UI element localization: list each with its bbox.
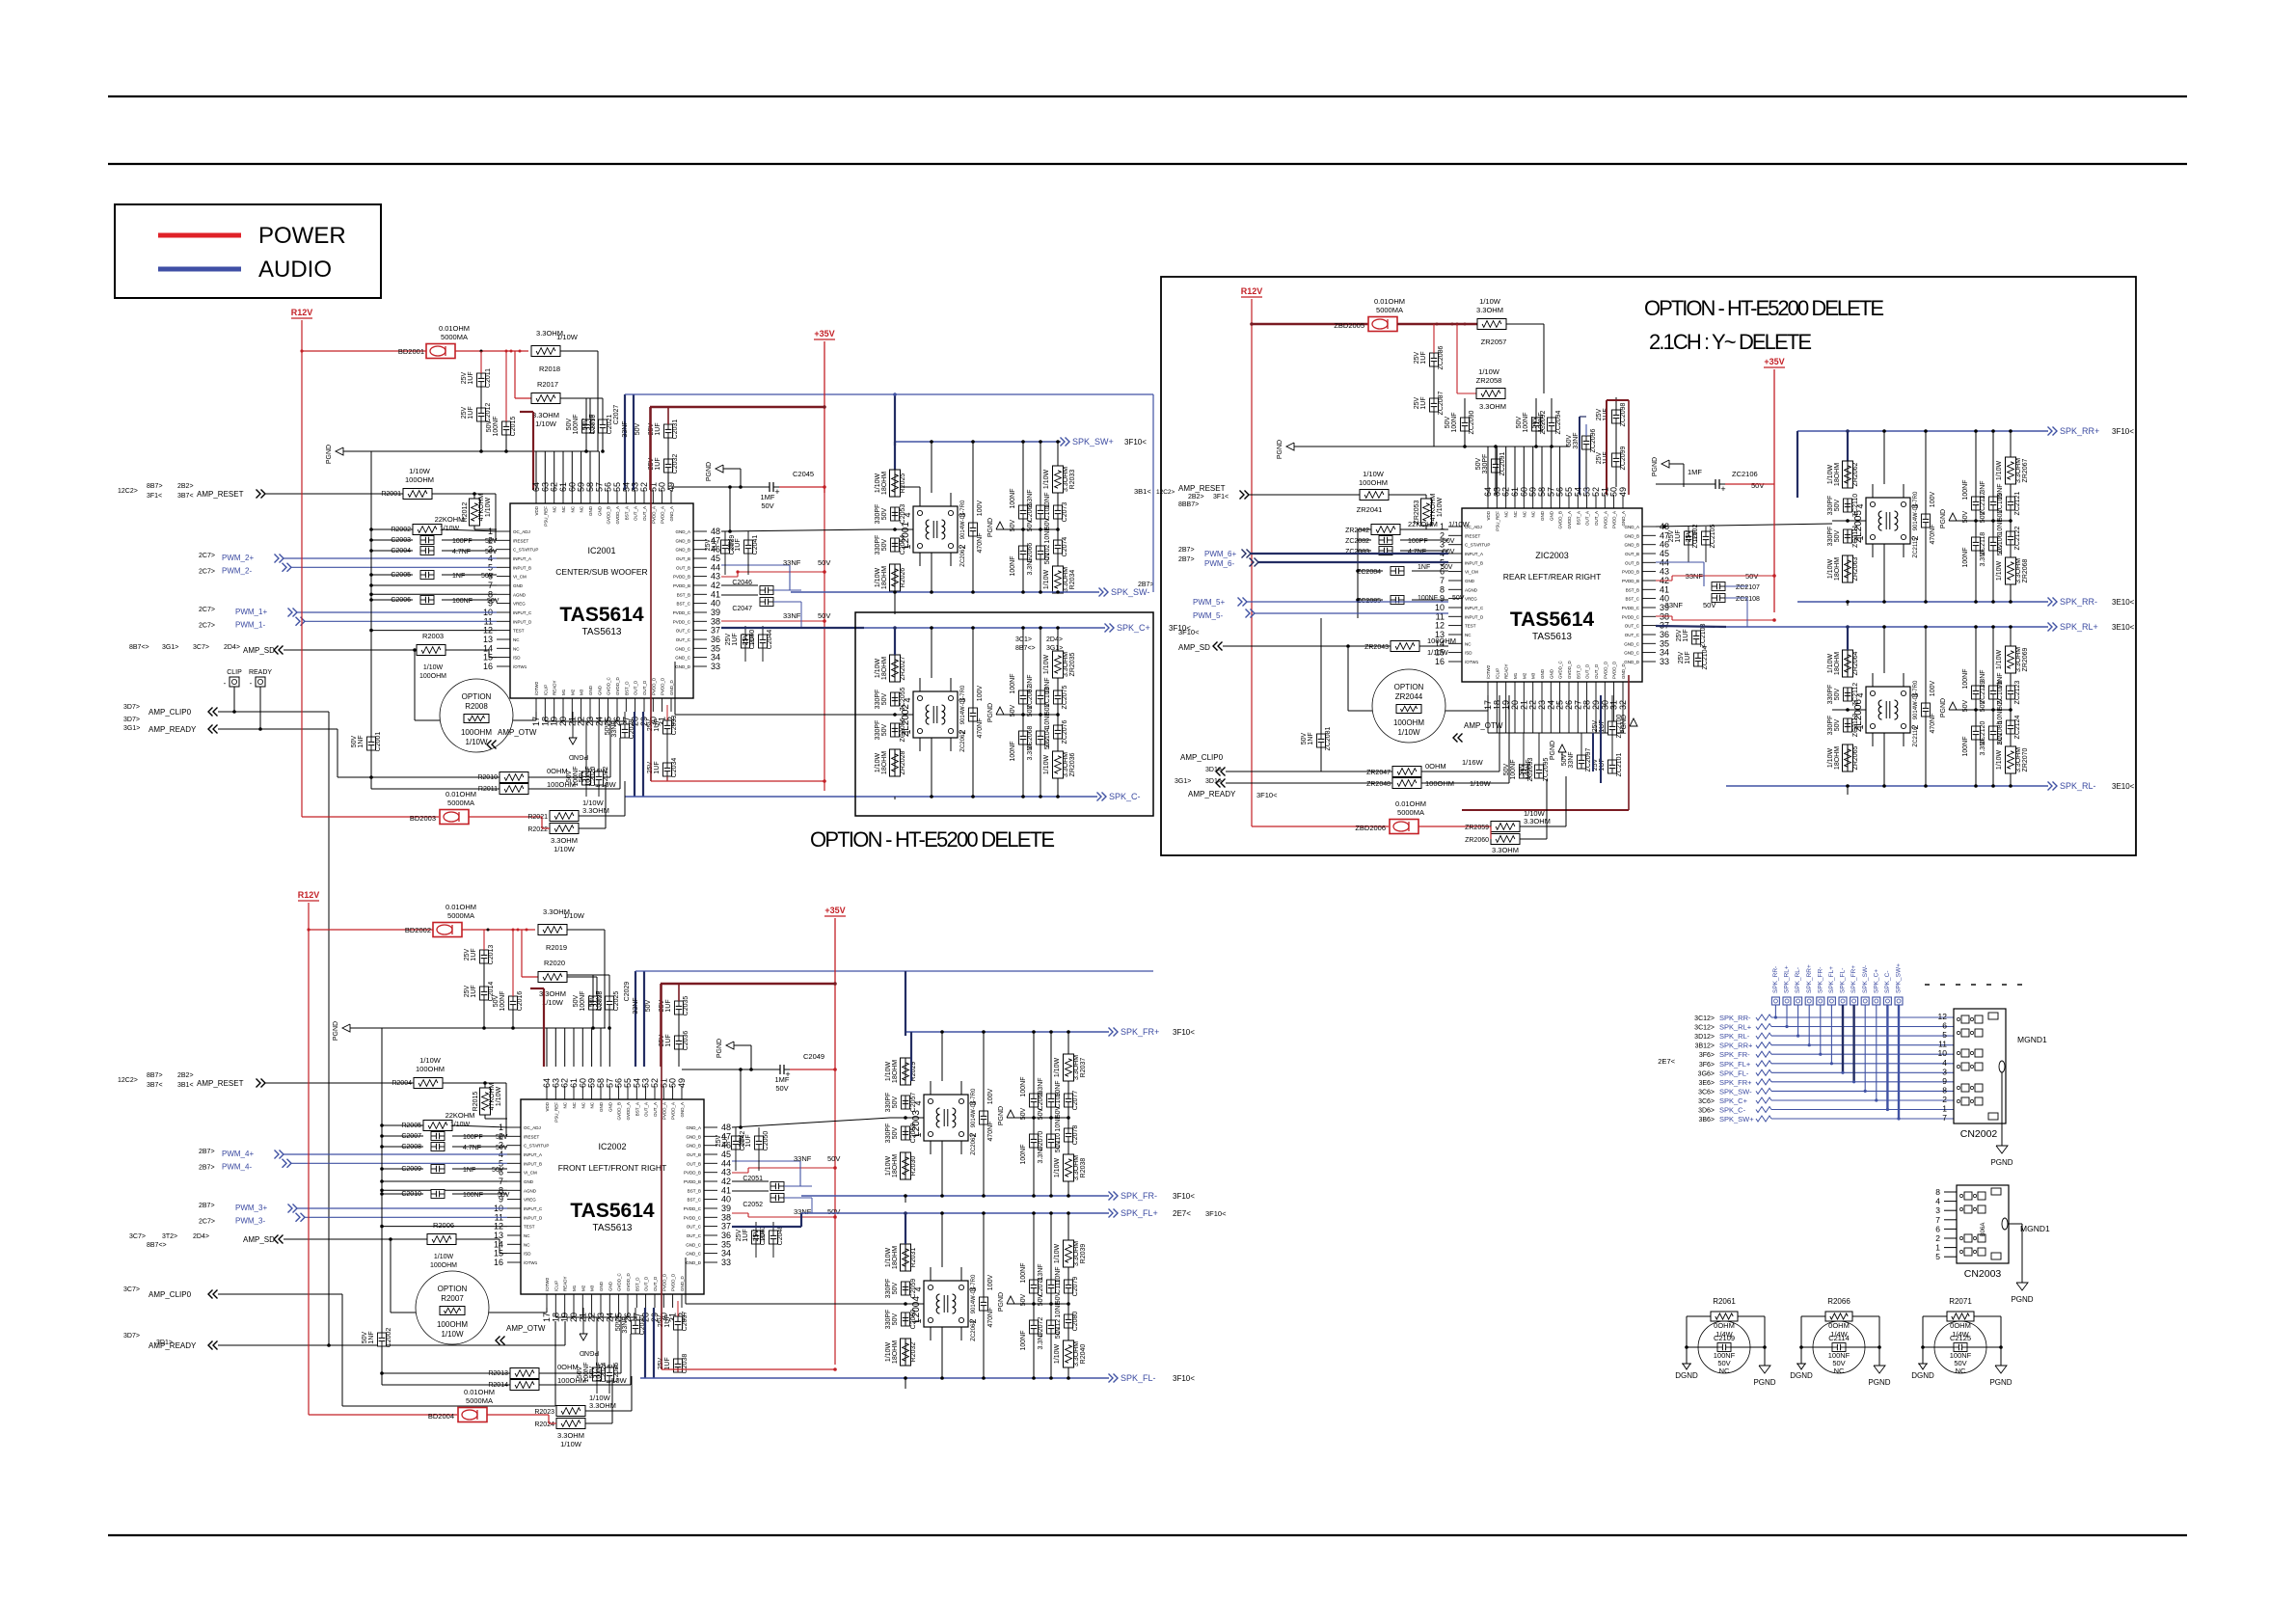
svg-text:3.3OHM: 3.3OHM [1063, 752, 1069, 777]
legend POWER wire sample red [158, 233, 241, 238]
svg-text:1/10W: 1/10W [1054, 1343, 1061, 1364]
svg-text:PWM_2-: PWM_2- [222, 566, 252, 575]
wire red PVDD_B jog [721, 576, 738, 578]
svg-text:R2034: R2034 [1069, 570, 1076, 590]
svg-text:/SD: /SD [1465, 651, 1472, 656]
capacitor ZC2097 33NF 50V [1578, 755, 1586, 769]
wire OUT_C navy block3 [1656, 626, 1726, 627]
svg-text:10NF: 10NF [1044, 677, 1051, 693]
svg-text:GND_B: GND_B [675, 548, 690, 553]
wire top pin bus block2 [604, 930, 606, 1028]
svg-text:470NF: 470NF [987, 1307, 994, 1327]
svg-text:PVDD_B: PVDD_B [673, 575, 690, 580]
resistor R2015 47KOHM 1/10W vertical [480, 1088, 491, 1115]
resistor ZR2067 3.3OHM [2006, 457, 2016, 484]
resistor R2001 100OHM 1/10W [403, 489, 432, 500]
svg-text:/SD: /SD [524, 1252, 531, 1257]
svg-text:GND: GND [1549, 510, 1553, 521]
svg-text:PVDD_D: PVDD_D [671, 1273, 676, 1291]
svg-text:R2039: R2039 [1080, 1244, 1087, 1264]
svg-text:C2078: C2078 [1072, 1125, 1079, 1146]
svg-text:AMP_SD: AMP_SD [243, 1235, 275, 1244]
svg-text:PVDD_B: PVDD_B [684, 1179, 701, 1184]
wire SPK_C- line [864, 796, 1097, 798]
resistor ZR2042 22KOHM cluster [1371, 525, 1400, 535]
svg-text:50V: 50V [1055, 1326, 1062, 1339]
svg-text:3B12>: 3B12> [1695, 1043, 1715, 1050]
svg-text:NC: NC [1522, 510, 1526, 517]
svg-text:3.3OHM: 3.3OHM [1492, 846, 1519, 854]
svg-text:VI_CM: VI_CM [1465, 570, 1478, 575]
svg-text:1UF: 1UF [1675, 529, 1682, 542]
svg-text:R2017: R2017 [537, 380, 558, 389]
svg-text:4: 4 [1942, 1058, 1947, 1068]
svg-text:2D4>: 2D4> [224, 644, 240, 651]
pgnd below IC2001 [572, 712, 574, 738]
capacitor C2109 100NF 50V NC in circle [1698, 1321, 1750, 1373]
wire +35V down [824, 341, 825, 493]
svg-text:100OHM: 100OHM [1393, 718, 1424, 727]
resistor R2038 3.3OHM [1064, 1154, 1074, 1181]
svg-text:C2114: C2114 [1828, 1334, 1850, 1342]
wire bottom pin drops IC2001 [544, 712, 546, 721]
svg-text:R2015: R2015 [473, 1092, 479, 1112]
wire c1nf c100nf [382, 1168, 423, 1170]
svg-text:GND: GND [599, 1281, 604, 1291]
svg-text:+35V: +35V [814, 329, 834, 338]
wire F2 mid gnd line [674, 662, 676, 715]
svg-text:330PF: 330PF [1827, 685, 1834, 705]
resistor R2006 100OHM [427, 1234, 456, 1245]
capacitor C2002 1NF 50V [378, 1333, 387, 1346]
svg-text:OUT_D: OUT_D [642, 680, 647, 695]
svg-text:ZC2108: ZC2108 [1736, 596, 1760, 603]
capacitor C2015 100NF 50V [502, 421, 511, 435]
capacitor C2060 330PF [902, 1313, 910, 1326]
svg-text:GVDD_C: GVDD_C [607, 676, 611, 695]
svg-text:OUT_C: OUT_C [676, 637, 691, 642]
svg-text:1UF: 1UF [471, 985, 477, 997]
svg-text:R2021: R2021 [527, 814, 548, 821]
inductor-transformer L2003 output filter [924, 1095, 968, 1141]
capacitor C2065 100NF [1019, 505, 1028, 519]
wire GND_A to filter block2 [732, 1118, 890, 1127]
capacitor C2050 1UF 25V [755, 1136, 764, 1150]
svg-text:5000MA: 5000MA [1397, 808, 1424, 817]
svg-text:1NF: 1NF [1418, 564, 1430, 571]
svg-text:C2031: C2031 [672, 420, 679, 440]
svg-text:SPK_FL-: SPK_FL- [1840, 968, 1847, 993]
node SPK_C- speaker output [1097, 793, 1102, 801]
resistor R2004 100OHM 1/10W [414, 1078, 443, 1089]
svg-text:C2058: C2058 [910, 1123, 917, 1144]
svg-text:330PF: 330PF [1827, 716, 1834, 736]
node SPK_RR- speaker output [2048, 598, 2053, 607]
svg-text:ZR2069: ZR2069 [2022, 647, 2029, 671]
wire maroon PVDD feed top [650, 406, 824, 408]
svg-text:PWM_5+: PWM_5+ [1193, 598, 1225, 607]
svg-text:ZBD2005: ZBD2005 [1334, 321, 1364, 330]
svg-text:ZC2099: ZC2099 [1620, 446, 1627, 470]
svg-text:BST_D: BST_D [624, 681, 629, 695]
svg-text:1/10W: 1/10W [1043, 469, 1050, 489]
ground DGND R2061 [1682, 1363, 1691, 1365]
svg-text:OUT_A: OUT_A [634, 506, 638, 521]
capacitor C2066 100NF [1019, 546, 1028, 559]
svg-text:33: 33 [711, 662, 720, 671]
svg-text:CN2003: CN2003 [1964, 1268, 2002, 1280]
svg-text:25V: 25V [1676, 629, 1683, 641]
svg-text:C_STARTUP: C_STARTUP [513, 548, 538, 553]
svg-text:3F10<: 3F10< [1178, 628, 1200, 636]
svg-text:1UF: 1UF [1420, 351, 1427, 364]
svg-text:100NF: 100NF [1526, 759, 1532, 779]
capacitor right caps ZC2102 1UF 25V [1685, 531, 1693, 545]
svg-text:33NF: 33NF [1568, 751, 1575, 768]
svg-text:PWM_4+: PWM_4+ [222, 1150, 254, 1158]
capacitor ZC2117 100NF [1972, 497, 1981, 510]
svg-text:OUT_D: OUT_D [653, 1276, 658, 1291]
svg-text:8: 8 [1942, 1085, 1947, 1095]
capacitor ZC2056 330PF [891, 723, 900, 737]
svg-text:AGND: AGND [1465, 587, 1478, 592]
resistor R2011 100OHM 1/10W [500, 784, 528, 795]
svg-text:33NF: 33NF [622, 420, 629, 437]
svg-text:NC: NC [1513, 510, 1518, 517]
svg-text:50V: 50V [1044, 737, 1051, 749]
wire left column [905, 1058, 906, 1085]
wire left column [1847, 650, 1849, 677]
svg-text:C2044: C2044 [767, 630, 773, 650]
wire top pin bus block3 [1487, 447, 1489, 495]
svg-text:TAS5614: TAS5614 [559, 604, 643, 626]
svg-text:C2009: C2009 [401, 1166, 421, 1173]
capacitor C2033 1UF 25V [663, 720, 672, 734]
svg-text:C2011: C2011 [485, 368, 492, 388]
svg-text:PVDD_C: PVDD_C [684, 1206, 702, 1211]
wire F3 tops [910, 1032, 912, 1081]
svg-text:M3: M3 [580, 689, 584, 695]
wire maroon feed block2 [661, 983, 835, 985]
svg-text:-: - [250, 679, 253, 688]
capacitor C2077 10NF [1065, 1094, 1073, 1107]
capacitor C2011 1UF 25V [477, 373, 486, 387]
svg-text:3.3OHM: 3.3OHM [1476, 306, 1503, 314]
wire F2 tops [894, 628, 896, 655]
wire right cluster verticals [1022, 678, 1024, 690]
wire transformer pins [930, 1267, 932, 1281]
svg-text:VDD: VDD [545, 1101, 550, 1111]
svg-text:1UF: 1UF [1685, 651, 1691, 663]
svg-text:8B7>: 8B7> [147, 1072, 163, 1079]
svg-text:4.7NF: 4.7NF [452, 549, 471, 555]
svg-text:25V: 25V [1668, 529, 1675, 542]
svg-text:3F1<: 3F1< [1213, 494, 1229, 501]
wire maroon drop to pins block3 [1606, 400, 1607, 495]
svg-text:100OHM: 100OHM [416, 1065, 445, 1073]
svg-text:2.1CH : Y~ DELETE: 2.1CH : Y~ DELETE [1649, 330, 1812, 354]
svg-text:8B7<>: 8B7<> [147, 1242, 167, 1249]
capacitor C2029 33NF navy stubs block2 [635, 971, 636, 1067]
ferrite bead BD2004 0.01OHM 5000MA [458, 1408, 487, 1422]
svg-text:25V: 25V [736, 1229, 743, 1241]
ground PGND R2061 [1759, 1366, 1770, 1373]
wire navy bottom bus block2 [644, 1308, 646, 1378]
svg-text:SPK_RL-: SPK_RL- [1795, 967, 1801, 993]
wire F5 bottoms [1847, 602, 1849, 606]
svg-text:18OHM: 18OHM [881, 657, 888, 680]
svg-text:3B6>: 3B6> [1698, 1117, 1715, 1123]
svg-text:100V: 100V [987, 1275, 994, 1291]
svg-text:IC2001: IC2001 [587, 546, 615, 555]
svg-text:50V: 50V [573, 994, 580, 1007]
capacitor ZC2081 1NF 50V [1317, 734, 1326, 747]
svg-text:100NF: 100NF [1020, 1330, 1027, 1350]
svg-text:SPK_RR+: SPK_RR+ [1719, 1042, 1753, 1050]
capacitor ZC2068 100NF [1019, 731, 1028, 744]
capacitor ZC106 3.3NF [1989, 537, 1998, 551]
svg-text:DGND: DGND [1911, 1371, 1934, 1380]
capacitor C2021 100NF 50V [599, 420, 608, 433]
wire navy bottom audio bus [634, 712, 635, 797]
svg-text:2B2>: 2B2> [177, 1072, 194, 1079]
svg-text:50V: 50V [1751, 481, 1764, 490]
svg-text:OUT_B: OUT_B [676, 565, 690, 570]
wire gnd pins to bus [382, 1180, 507, 1182]
svg-text:1/10W: 1/10W [1363, 470, 1385, 478]
svg-text:18OHM: 18OHM [1834, 557, 1841, 581]
svg-text:18OHM: 18OHM [1834, 746, 1841, 770]
svg-text:50V: 50V [582, 418, 589, 430]
svg-text:C2052: C2052 [743, 1202, 763, 1208]
svg-text:8B7<>: 8B7<> [129, 644, 149, 651]
svg-text:100V: 100V [1930, 492, 1936, 508]
svg-text:PSU_REF: PSU_REF [543, 506, 548, 527]
capacitor C2004 4.7NF 50V [420, 547, 434, 555]
svg-text:2D4>: 2D4> [1046, 636, 1063, 643]
svg-text:R2006: R2006 [433, 1221, 454, 1230]
svg-text:BST_C: BST_C [1625, 597, 1639, 602]
svg-text:OPTION: OPTION [462, 692, 492, 701]
svg-text:C2074: C2074 [1062, 537, 1068, 557]
svg-text:GND: GND [597, 685, 602, 695]
svg-text:16: 16 [483, 662, 493, 671]
svg-text:33NF: 33NF [633, 997, 639, 1014]
capacitor C2058 330PF [902, 1126, 910, 1140]
svg-text:100PF: 100PF [452, 538, 473, 545]
svg-text:GVDD_B: GVDD_B [607, 506, 611, 525]
svg-text:R2004: R2004 [392, 1080, 412, 1087]
svg-text:PGND: PGND [1652, 457, 1659, 476]
svg-text:SPK_C+: SPK_C+ [1873, 969, 1879, 993]
option delete big box [1161, 277, 2136, 855]
svg-text:SPK_SW-: SPK_SW- [1719, 1087, 1752, 1096]
resistor R2021 3.3OHM [550, 811, 579, 822]
svg-text:R2023: R2023 [534, 1409, 554, 1416]
svg-text:0.01OHM: 0.01OHM [464, 1388, 495, 1396]
svg-text:18OHM: 18OHM [892, 1340, 899, 1364]
svg-text:1/10W: 1/10W [1827, 653, 1834, 673]
capacitor ZC2082 100PF [1379, 536, 1392, 545]
svg-text:100PF: 100PF [1408, 538, 1428, 545]
capacitor ZC2112 330PF [1844, 688, 1852, 701]
resistor R2003 100OHM [417, 645, 446, 656]
capacitor C2039 1UF 25V [721, 540, 730, 554]
svg-text:50V: 50V [1010, 704, 1016, 717]
svg-text:ZR2044: ZR2044 [1395, 692, 1423, 701]
svg-text:VI_CM: VI_CM [524, 1171, 537, 1176]
svg-text:0.01OHM: 0.01OHM [446, 790, 476, 798]
svg-text:ZR2027: ZR2027 [900, 656, 906, 680]
svg-text:AMP_RESET: AMP_RESET [197, 490, 244, 499]
svg-text:OUT_C: OUT_C [687, 1225, 702, 1230]
svg-text:9014W-01-7R0: 9014W-01-7R0 [971, 1088, 977, 1127]
wire red pin feeds block3 [1656, 580, 1672, 582]
svg-text:ZC2106: ZC2106 [1732, 470, 1758, 478]
svg-text:DGND: DGND [1675, 1371, 1698, 1380]
svg-text:ZR2063: ZR2063 [1852, 556, 1859, 581]
svg-text:1/10W: 1/10W [409, 467, 431, 475]
svg-text:ZC2101: ZC2101 [1616, 752, 1623, 776]
pgnd flag filter [1949, 702, 1957, 710]
node SPK_FR- speaker output [1109, 1192, 1114, 1201]
svg-text:+35V: +35V [1764, 357, 1784, 366]
capacitor C2042 1UF 25V [732, 1136, 741, 1150]
svg-text:GND_A: GND_A [680, 1102, 685, 1118]
svg-text:INPUT_C: INPUT_C [513, 610, 532, 615]
wire after BD2004 [487, 1414, 549, 1416]
svg-text:SPK_RR-: SPK_RR- [2060, 597, 2097, 607]
capacitor ZC2116 470NF 100V [1922, 703, 1931, 717]
svg-text:R2019: R2019 [546, 943, 567, 952]
svg-text:50V: 50V [1441, 564, 1453, 571]
wire pgnd tie [1023, 714, 1058, 716]
capacitor C2047 33NF 50V [760, 598, 773, 607]
capacitor ZC104 3.3NF [1037, 731, 1045, 744]
inductor-transformer L2004 output filter [924, 1281, 968, 1327]
svg-text:ZC2075: ZC2075 [1062, 685, 1068, 709]
svg-text:1/16W: 1/16W [1462, 758, 1484, 767]
svg-text:OPTION - HT-E5200 DELETE: OPTION - HT-E5200 DELETE [810, 827, 1055, 852]
svg-text:1/10W: 1/10W [875, 752, 881, 772]
svg-text:C2006: C2006 [391, 597, 411, 604]
svg-text:C2037: C2037 [682, 1312, 689, 1332]
option delete box around F2 [855, 612, 1153, 816]
svg-text:R2038: R2038 [1080, 1158, 1087, 1178]
capacitor C2051 33NF 50V [770, 1182, 784, 1191]
svg-text:100NF: 100NF [1010, 488, 1016, 508]
svg-text:GVDD_A: GVDD_A [615, 506, 620, 525]
wire red PVDD_B jog block2 [732, 1172, 748, 1174]
svg-text:100NF: 100NF [573, 414, 580, 434]
svg-text:0.01OHM: 0.01OHM [439, 324, 470, 333]
svg-text:READY: READY [1504, 663, 1509, 679]
svg-text:3.3OHM: 3.3OHM [532, 411, 559, 420]
svg-text:M2: M2 [581, 1285, 585, 1291]
svg-text:25V: 25V [464, 948, 471, 961]
wire SPK_FL+ line [801, 1212, 1109, 1214]
svg-text:ZC2113: ZC2113 [1852, 714, 1859, 737]
svg-text:SPK_FL+: SPK_FL+ [1828, 966, 1835, 993]
svg-text:BD2003: BD2003 [410, 814, 436, 823]
svg-text:M2: M2 [570, 689, 575, 695]
svg-text:PVDD_D: PVDD_D [662, 1273, 666, 1291]
svg-text:ZC2087: ZC2087 [1438, 391, 1445, 415]
resistor R2026 18OHM [890, 564, 901, 591]
wire +35V down block2 [834, 918, 836, 1069]
svg-text:49: 49 [666, 482, 676, 492]
ferrite bead ZBD2005 0.01OHM 5000MA [1368, 317, 1397, 332]
resistor R2039 3.3OHM [1064, 1240, 1074, 1267]
svg-text:ZC2084: ZC2084 [1357, 569, 1381, 576]
svg-text:1/10W: 1/10W [542, 998, 564, 1007]
svg-text:3D7>: 3D7> [123, 1333, 140, 1340]
svg-text:AMP_READY: AMP_READY [149, 1341, 197, 1350]
svg-text:5000MA: 5000MA [447, 911, 474, 920]
svg-text:6: 6 [1935, 1224, 1940, 1233]
svg-text:C2003: C2003 [391, 537, 411, 544]
svg-text:1/10W: 1/10W [434, 1254, 454, 1260]
svg-text:50V: 50V [1703, 601, 1715, 609]
capacitor C2012 1UF 25V [477, 408, 486, 421]
inductor-transformer ZL2002 output filter [913, 691, 958, 738]
svg-text:2B7>: 2B7> [1178, 556, 1195, 563]
svg-text:C2057: C2057 [910, 1093, 917, 1113]
svg-text:18OHM: 18OHM [1834, 463, 1841, 486]
resistor R2008 OPTION 100OHM 1/10W in circle [440, 679, 513, 752]
svg-text:100NF: 100NF [500, 990, 506, 1011]
svg-text:5000MA: 5000MA [447, 798, 474, 807]
svg-text:AMP_RESET: AMP_RESET [197, 1079, 244, 1088]
svg-text:SPK_FR-: SPK_FR- [1719, 1050, 1750, 1059]
wire bottom pin drops block3 [1487, 695, 1489, 733]
wire top pin bus [597, 351, 599, 451]
wire pgnd tie [1023, 528, 1058, 530]
wire option resistor ZR2044 taps [1348, 710, 1372, 712]
wire pad taps [1774, 1005, 1776, 1017]
svg-text:GND_B: GND_B [686, 1144, 701, 1149]
svg-text:GND_A: GND_A [686, 1125, 701, 1130]
capacitor ZC2105 1UF 25V [1702, 531, 1711, 545]
svg-text:PVDD_D: PVDD_D [651, 677, 656, 695]
capacitor ZC2106 1MF 50V polarized [1710, 483, 1715, 485]
svg-text:NC: NC [1465, 633, 1472, 637]
svg-text:R12V: R12V [298, 890, 320, 900]
wire pgnd tie [1034, 1117, 1068, 1119]
svg-text:1UF: 1UF [732, 633, 739, 645]
svg-text:1/10W: 1/10W [1478, 367, 1500, 376]
svg-text:3.3OHM: 3.3OHM [2015, 747, 2022, 772]
svg-text:1UF: 1UF [712, 538, 718, 551]
svg-text:9014W-01-7R0: 9014W-01-7R0 [960, 500, 966, 539]
svg-text:25V: 25V [705, 538, 712, 551]
svg-text:INPUT_D: INPUT_D [1465, 614, 1484, 619]
svg-text:2B2>: 2B2> [1188, 494, 1204, 501]
capacitor ZC2120 100NF [1972, 726, 1981, 740]
svg-text:50V: 50V [1834, 499, 1841, 511]
svg-text:50V: 50V [492, 1167, 504, 1174]
svg-text:470NF: 470NF [1930, 524, 1936, 544]
svg-text:PGND: PGND [987, 703, 994, 722]
svg-text:C2001: C2001 [375, 732, 382, 752]
svg-text:R2033: R2033 [1069, 470, 1076, 490]
svg-text:VREG: VREG [513, 602, 526, 607]
svg-text:12C2>: 12C2> [118, 488, 138, 495]
svg-text:3F10<: 3F10< [1173, 1028, 1195, 1037]
capacitor ZC2100 1UF 25V [1608, 721, 1617, 735]
wire PWM_1+ [288, 609, 293, 617]
svg-text:25V: 25V [739, 1134, 745, 1147]
